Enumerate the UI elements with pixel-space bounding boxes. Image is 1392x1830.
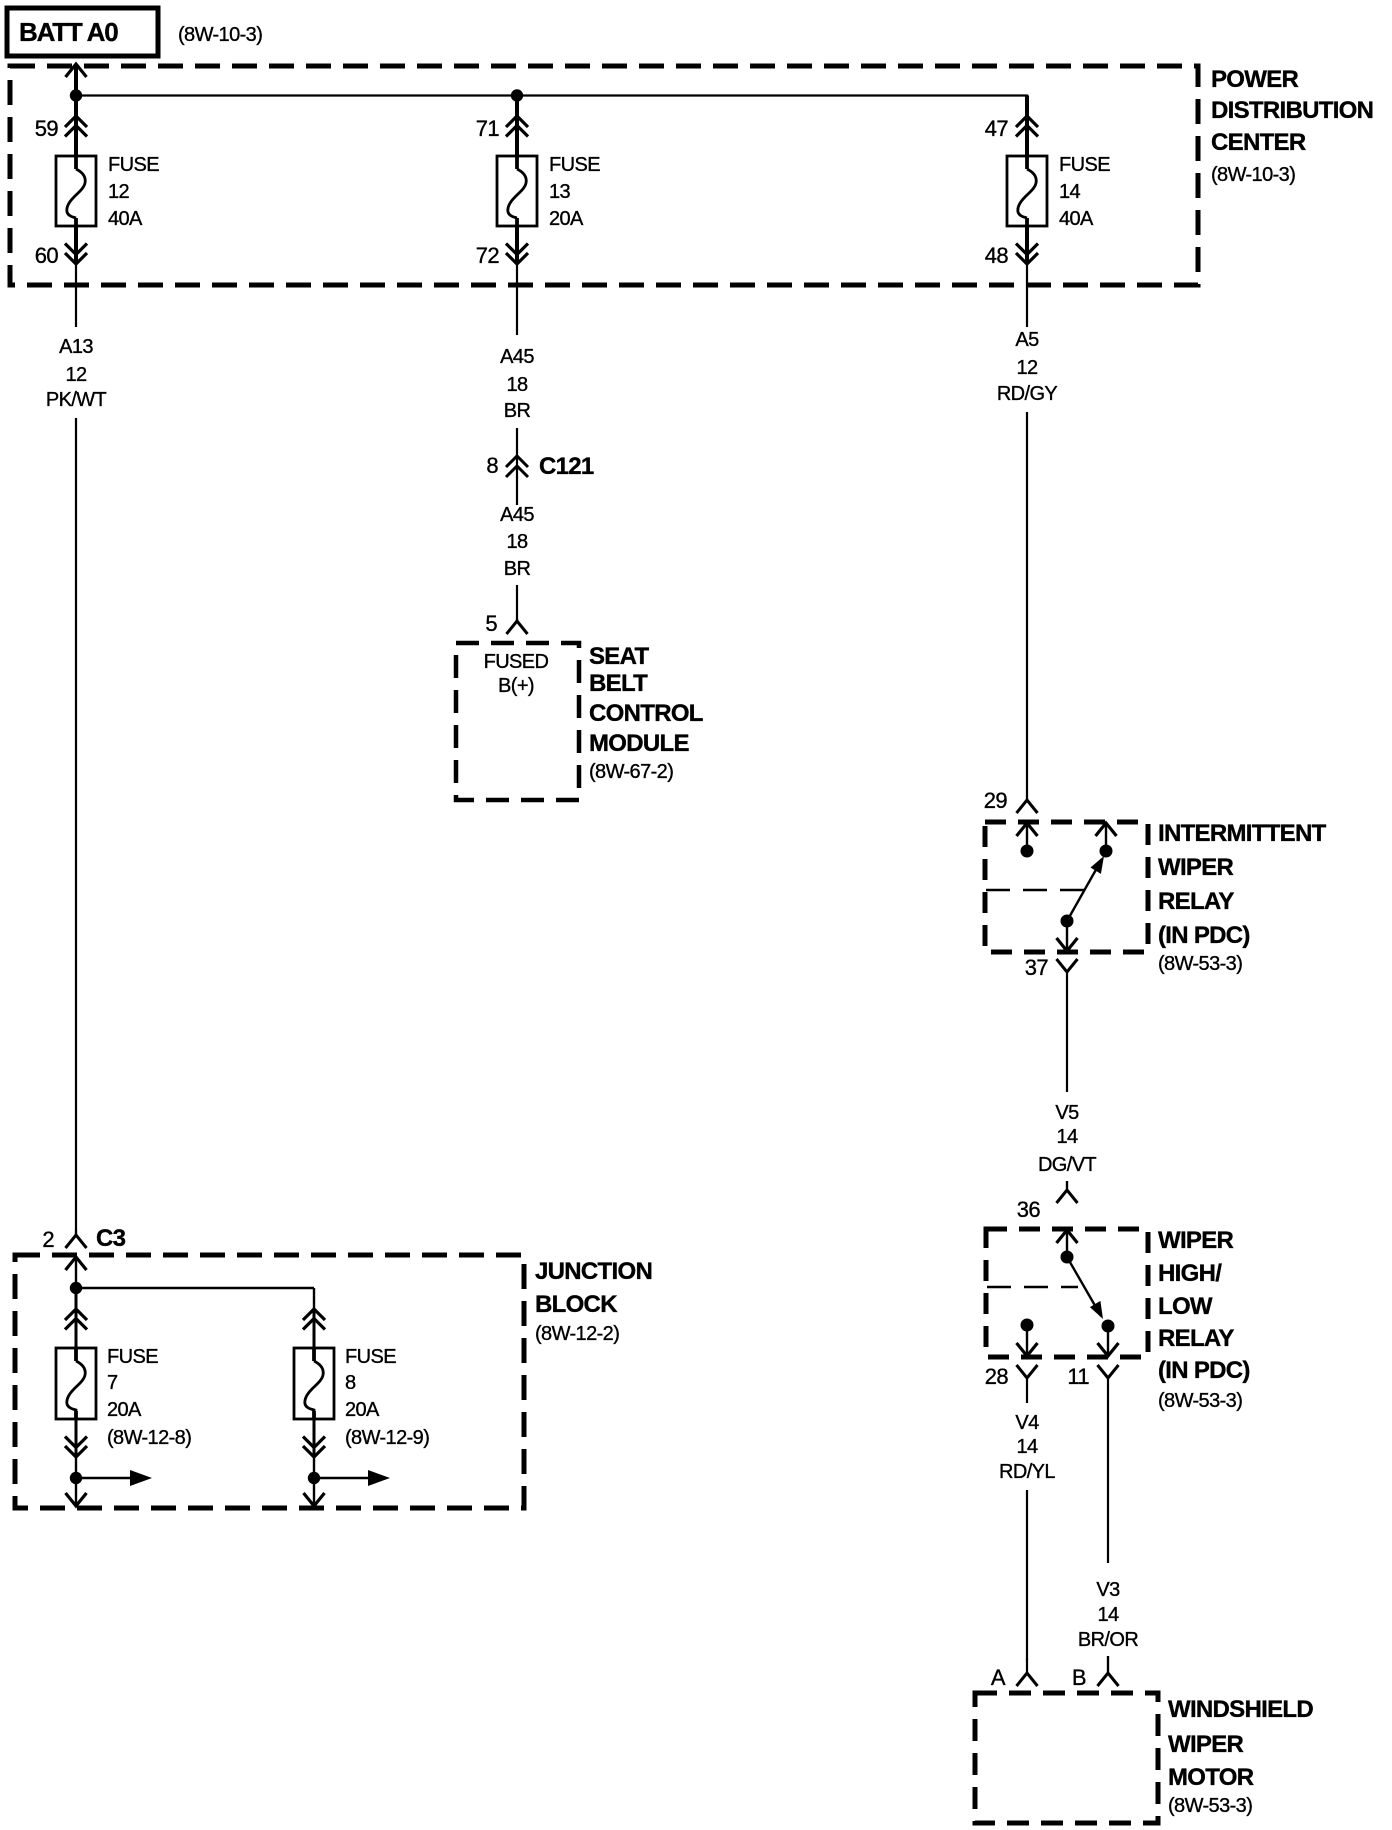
svg-text:POWER: POWER	[1211, 66, 1299, 93]
wire A5 label	[997, 329, 1058, 405]
relay1 fixed contact pin and dot	[1096, 823, 1117, 858]
svg-text:5: 5	[485, 611, 497, 636]
relay1 coil actuation dashed line	[986, 889, 1084, 891]
svg-text:WIPER: WIPER	[1168, 1731, 1244, 1758]
wire from BATT A0 into PDC with up arrow	[66, 64, 87, 96]
svg-text:BR/OR: BR/OR	[1078, 1629, 1138, 1651]
svg-text:8: 8	[486, 453, 498, 478]
relay2 pin 36 male arrow and common contact	[1057, 1230, 1078, 1264]
svg-text:14: 14	[1016, 1436, 1038, 1458]
pin 29 female fork at intermittent wiper relay	[1026, 798, 1028, 800]
pin 28 female fork below relay	[1017, 1365, 1038, 1378]
svg-text:HIGH/: HIGH/	[1158, 1260, 1222, 1287]
wire V3 label	[1078, 1579, 1138, 1651]
svg-text:12: 12	[1016, 357, 1038, 379]
connector C121 chevrons pin 8	[506, 428, 528, 505]
pin 60 connector chevrons	[65, 226, 87, 285]
pin 2 male arrow inside junction block	[66, 1257, 87, 1288]
fuse F7 value label	[107, 1346, 191, 1449]
power distribution center label	[1211, 66, 1373, 186]
wire A5 lower segment	[1026, 412, 1028, 800]
pin 11 female fork below relay	[1098, 1365, 1119, 1378]
svg-text:FUSE: FUSE	[345, 1346, 396, 1368]
svg-text:RELAY: RELAY	[1158, 888, 1234, 915]
svg-text:20A: 20A	[345, 1399, 380, 1421]
svg-text:WIPER: WIPER	[1158, 1227, 1234, 1254]
svg-text:B(+): B(+)	[498, 675, 534, 697]
pin 47 connector chevrons	[1016, 96, 1038, 157]
svg-text:CENTER: CENTER	[1211, 129, 1306, 156]
svg-text:8: 8	[345, 1372, 356, 1394]
svg-text:DG/VT: DG/VT	[1038, 1154, 1096, 1176]
svg-text:(8W-10-3): (8W-10-3)	[178, 24, 262, 46]
svg-text:20A: 20A	[107, 1399, 142, 1421]
svg-text:12: 12	[65, 364, 87, 386]
fuse F13	[497, 156, 537, 226]
svg-text:A45: A45	[500, 346, 534, 368]
svg-text:C121: C121	[539, 453, 594, 480]
svg-text:PK/WT: PK/WT	[46, 389, 107, 411]
wire A13 label	[46, 336, 107, 411]
power distribution center dashed box	[10, 66, 1198, 285]
svg-text:47: 47	[985, 116, 1009, 141]
fuse 8 output chevrons	[303, 1419, 325, 1457]
pin 48 connector chevrons	[1016, 226, 1038, 285]
svg-text:C3: C3	[96, 1225, 126, 1252]
svg-text:(8W-12-8): (8W-12-8)	[107, 1427, 191, 1449]
svg-text:BATT A0: BATT A0	[19, 17, 118, 47]
seat belt control module label	[589, 643, 703, 783]
svg-text:A45: A45	[500, 504, 534, 526]
svg-text:SEAT: SEAT	[589, 643, 649, 670]
svg-text:7: 7	[107, 1372, 118, 1394]
wire A45 label upper	[500, 346, 534, 422]
svg-text:FUSE: FUSE	[107, 1346, 158, 1368]
intermittent wiper relay label	[1158, 820, 1327, 975]
svg-text:29: 29	[984, 788, 1008, 813]
svg-text:CONTROL: CONTROL	[589, 700, 703, 727]
svg-text:2: 2	[42, 1227, 54, 1252]
fuse F12 value label	[108, 154, 159, 230]
svg-text:(8W-12-2): (8W-12-2)	[535, 1323, 619, 1345]
svg-text:RELAY: RELAY	[1158, 1325, 1234, 1352]
svg-text:11: 11	[1067, 1364, 1089, 1389]
wire V5 label	[1038, 1102, 1096, 1176]
svg-text:(8W-10-3): (8W-10-3)	[1211, 164, 1295, 186]
pin A female fork at wiper motor	[1026, 1658, 1028, 1673]
fuse 7 output chevrons	[65, 1419, 87, 1457]
pin 36 female fork at wiper high-low relay	[1066, 1181, 1068, 1190]
bus wire across PDC top	[76, 95, 1027, 117]
fuse F14	[1007, 156, 1047, 226]
svg-text:B: B	[1072, 1665, 1086, 1690]
svg-text:18: 18	[506, 531, 528, 553]
svg-text:RD/YL: RD/YL	[999, 1461, 1055, 1483]
svg-text:14: 14	[1059, 181, 1081, 203]
svg-text:59: 59	[35, 116, 59, 141]
svg-text:WIPER: WIPER	[1158, 854, 1234, 881]
pin 72 connector chevrons	[506, 226, 528, 285]
svg-text:A: A	[991, 1665, 1006, 1690]
junction block dashed box	[15, 1255, 524, 1508]
wire A13 lower segment	[75, 418, 77, 1235]
wiper high-low relay label	[1158, 1227, 1250, 1412]
fuse 8 input chevrons	[303, 1309, 325, 1320]
junction block label	[535, 1258, 652, 1345]
svg-text:(8W-53-3): (8W-53-3)	[1158, 953, 1242, 975]
svg-text:(8W-53-3): (8W-53-3)	[1168, 1795, 1252, 1817]
intermittent wiper relay dashed box	[985, 822, 1148, 952]
svg-text:FUSED: FUSED	[484, 651, 549, 673]
wire into fuse 8	[313, 1310, 316, 1348]
jumper wire from node to fuse 8 branch	[76, 1288, 314, 1310]
wire A5 upper segment	[1026, 285, 1028, 327]
relay2 low contact to pin 28	[1017, 1319, 1038, 1357]
fuse F8	[294, 1348, 334, 1419]
fuse 7 branch arrow to other circuits	[76, 1470, 152, 1486]
svg-text:BR: BR	[504, 558, 531, 580]
svg-text:48: 48	[985, 243, 1009, 268]
svg-text:A5: A5	[1015, 329, 1039, 351]
wire A45 label lower	[500, 504, 534, 580]
pin B female fork at wiper motor	[1107, 1656, 1109, 1673]
windshield wiper motor label	[1168, 1696, 1313, 1817]
svg-text:(8W-53-3): (8W-53-3)	[1158, 1390, 1242, 1412]
fuse 8 branch arrow to other circuits	[314, 1470, 390, 1486]
wire A45 upper segment	[516, 285, 518, 335]
fuse 7 output node	[70, 1457, 82, 1506]
pin 59 connector chevrons	[65, 96, 87, 157]
wire V4 label	[999, 1412, 1055, 1483]
windshield wiper motor dashed box	[975, 1693, 1158, 1823]
wire V4 lower segment	[1026, 1490, 1028, 1660]
relay2 switch armature	[1067, 1257, 1103, 1319]
svg-text:MODULE: MODULE	[589, 730, 689, 757]
svg-text:40A: 40A	[108, 208, 143, 230]
fuse 8 exit arrow through junction block border	[304, 1493, 325, 1506]
svg-text:A13: A13	[59, 336, 93, 358]
wire V5 lower segment	[1066, 1181, 1068, 1190]
svg-text:WINDSHIELD: WINDSHIELD	[1168, 1696, 1313, 1723]
svg-text:JUNCTION: JUNCTION	[535, 1258, 652, 1285]
fuse F13 value label	[549, 154, 600, 230]
svg-text:V5: V5	[1055, 1102, 1079, 1124]
wiper high-low relay dashed box	[986, 1229, 1148, 1357]
svg-text:12: 12	[108, 181, 130, 203]
svg-text:20A: 20A	[549, 208, 584, 230]
svg-text:BELT: BELT	[589, 670, 648, 697]
svg-text:FUSE: FUSE	[108, 154, 159, 176]
pin 71 connector chevrons	[506, 96, 528, 157]
svg-text:V4: V4	[1015, 1412, 1039, 1434]
svg-text:28: 28	[985, 1364, 1009, 1389]
svg-text:(IN PDC): (IN PDC)	[1158, 922, 1250, 949]
svg-text:LOW: LOW	[1158, 1293, 1213, 1320]
svg-text:BR: BR	[504, 400, 531, 422]
svg-text:14: 14	[1097, 1604, 1119, 1626]
svg-text:V3: V3	[1096, 1579, 1120, 1601]
svg-text:BLOCK: BLOCK	[535, 1291, 618, 1318]
connector C3 female fork pin 2	[75, 1230, 77, 1235]
fuse F14 value label	[1059, 154, 1110, 230]
wire A45 lower segment	[516, 585, 518, 621]
svg-text:14: 14	[1056, 1126, 1078, 1148]
junction node feeding fuses 7 and 8	[70, 1282, 82, 1294]
wire V3 lower segment	[1107, 1656, 1109, 1673]
svg-text:MOTOR: MOTOR	[1168, 1764, 1254, 1791]
svg-text:13: 13	[549, 181, 571, 203]
bus junction node at fuse 13	[511, 89, 523, 101]
relay1 common contact to pin 37	[1057, 915, 1078, 952]
bus junction node at fuse 12	[70, 89, 82, 101]
wire A13 upper segment	[75, 285, 77, 327]
svg-text:(8W-67-2): (8W-67-2)	[589, 761, 673, 783]
wire V3 upper segment	[1107, 1403, 1109, 1563]
battery feed node BATT A0 box	[7, 8, 158, 56]
svg-text:(8W-12-9): (8W-12-9)	[345, 1427, 429, 1449]
svg-text:DISTRIBUTION: DISTRIBUTION	[1211, 97, 1373, 124]
relay2 high contact to pin 11	[1098, 1320, 1119, 1357]
fuse 8 output node	[308, 1457, 320, 1506]
fuse F8 value label	[345, 1346, 429, 1449]
fuse F12	[56, 156, 96, 226]
pin 37 female fork below relay	[1057, 959, 1078, 972]
svg-text:FUSE: FUSE	[549, 154, 600, 176]
svg-text:18: 18	[506, 374, 528, 396]
svg-text:40A: 40A	[1059, 208, 1094, 230]
svg-text:36: 36	[1017, 1197, 1041, 1222]
relay2 coil actuation dashed line	[987, 1286, 1078, 1288]
svg-text:71: 71	[476, 116, 500, 141]
relay1 switch armature	[1067, 856, 1104, 921]
svg-text:FUSE: FUSE	[1059, 154, 1110, 176]
seat belt control module dashed box	[456, 643, 579, 800]
relay1 pin 29 male arrow and contact	[1017, 823, 1038, 858]
svg-text:RD/GY: RD/GY	[997, 383, 1058, 405]
svg-text:INTERMITTENT: INTERMITTENT	[1158, 820, 1327, 847]
svg-text:(IN PDC): (IN PDC)	[1158, 1357, 1250, 1384]
fuse 7 exit arrow through junction block border	[66, 1493, 87, 1506]
pin 5 female fork at seat belt control module	[516, 618, 518, 621]
svg-text:72: 72	[476, 243, 500, 268]
fuse 7 input chevrons	[65, 1288, 87, 1348]
svg-text:60: 60	[35, 243, 59, 268]
fuse F7	[56, 1348, 96, 1419]
svg-text:37: 37	[1025, 955, 1049, 980]
FUSED B(+) label inside module	[484, 651, 549, 697]
